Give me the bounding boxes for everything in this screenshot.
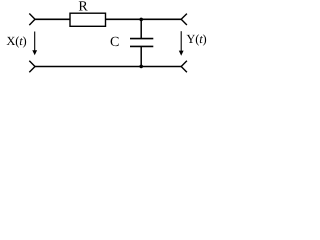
svg-text:R: R [78,0,88,15]
wire bottom rail [35,66,182,68]
wire top rail right segment [106,18,182,20]
input arrow (down) at X(t) [32,32,37,56]
svg-text:Y(t): Y(t) [186,32,206,46]
output port terminal (bottom-right chevron) [181,61,187,72]
capacitor C top plate [130,38,153,40]
wire capacitor top lead [140,19,142,38]
input port terminal (bottom-left chevron) [29,61,35,73]
output arrow (down) at Y(t) [179,31,184,56]
capacitor C bottom plate [130,45,153,47]
svg-text:X(t): X(t) [6,34,26,48]
svg-text:C: C [110,35,119,50]
node junction dot bottom [139,65,143,69]
output port terminal (top-right chevron) [181,14,187,25]
wire capacitor bottom lead [140,46,142,66]
input port terminal (top-left chevron) [29,14,35,26]
resistor R1 body [70,13,106,26]
node junction dot top [139,18,143,22]
wire top rail left segment [35,18,71,20]
